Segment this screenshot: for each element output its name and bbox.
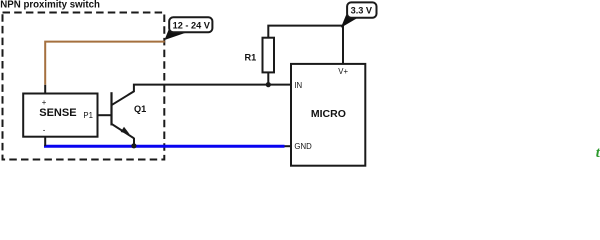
transistor Q1: collector diagonal — [112, 91, 135, 105]
wire: orange supply wire from SENSE + pin to 12-24V label — [45, 42, 165, 85]
svg-text:Q1: Q1 — [134, 104, 146, 114]
svg-text:12 - 24 V: 12 - 24 V — [173, 21, 211, 31]
wire: MICRO GND pin stub — [283, 145, 291, 147]
svg-text:P1: P1 — [83, 111, 93, 120]
svg-text:V+: V+ — [338, 67, 348, 76]
svg-text:SENSE: SENSE — [39, 107, 76, 119]
svg-text:3.3 V: 3.3 V — [351, 6, 373, 16]
wire: blue ground wire from SENSE - pin to MICRO GND — [44, 145, 285, 148]
power label 3.3 V callout — [341, 2, 377, 27]
component box MICRO — [291, 64, 365, 166]
wire: R1 bottom to IN net — [267, 72, 269, 84]
resistor R1 — [263, 38, 275, 73]
wire: R1 top to 3.3V rail — [268, 26, 343, 64]
component box SENSE — [23, 94, 97, 137]
svg-text:+: + — [42, 98, 47, 107]
junction: R1 bottom on IN net — [266, 82, 271, 87]
transistor Q1: emitter diagonal with arrow — [112, 124, 134, 138]
svg-text:R1: R1 — [245, 53, 257, 63]
svg-text:MICRO: MICRO — [311, 108, 346, 120]
power label 12 - 24 V callout — [165, 17, 213, 40]
wire: SENSE + pin stub — [44, 85, 46, 94]
wire: base wire from SENSE P1 to Q1 — [97, 114, 112, 116]
wire: SENSE - pin stub — [44, 137, 46, 147]
svg-text:-: - — [43, 126, 46, 135]
svg-text:t: t — [596, 145, 600, 161]
svg-text:NPN proximity switch: NPN proximity switch — [0, 0, 100, 10]
svg-text:GND: GND — [294, 142, 312, 151]
svg-text:IN: IN — [294, 81, 302, 90]
dashed boundary box of NPN proximity switch — [3, 13, 165, 160]
transistor Q1 (NPN): base bar — [110, 92, 112, 125]
wire: collector net from Q1 to MICRO IN pin — [134, 85, 291, 92]
junction: emitter to ground wire — [131, 143, 136, 148]
wire: emitter drop from Q1 to blue ground wire — [133, 138, 135, 146]
